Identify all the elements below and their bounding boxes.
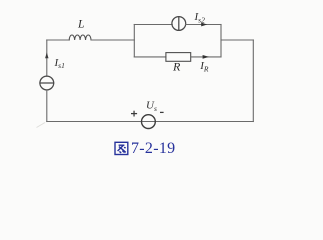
wire box to right vertical [221, 39, 253, 41]
svg-text:Is2: Is2 [194, 11, 206, 25]
wire box left edge [133, 25, 135, 57]
inductor L [69, 35, 91, 40]
svg-text:L: L [77, 18, 84, 30]
wire top-left horizontal [47, 39, 69, 41]
current source Is2 [172, 17, 186, 31]
svg-text:Is1: Is1 [54, 57, 65, 70]
resistor R [166, 53, 191, 62]
svg-text:Us: Us [146, 100, 157, 114]
polarity minus [160, 111, 164, 113]
wire left vertical upper [46, 40, 48, 76]
wire left vertical lower [46, 90, 48, 122]
wire bottom branch left [134, 56, 166, 58]
caption: 图 glyph drawn as strokes [115, 142, 128, 154]
wire top branch left [134, 24, 172, 26]
wire top branch right [186, 24, 222, 26]
arrow IR (right) [203, 55, 209, 59]
wire bottom [47, 121, 254, 123]
arrow Is2 (right) [201, 23, 207, 27]
wire right vertical [252, 40, 254, 122]
voltage source Us [142, 115, 156, 129]
wire bottom branch right [191, 56, 221, 58]
arrow Is1 (up) [45, 52, 48, 58]
scan artifact near bottom-left corner [37, 123, 46, 128]
svg-text:IR: IR [199, 60, 209, 74]
current source Is1 [40, 76, 54, 90]
svg-text:7-2-19: 7-2-19 [131, 140, 175, 157]
wire box right edge [220, 25, 222, 57]
polarity plus [131, 111, 137, 117]
wire inductor to parallel box [91, 39, 134, 41]
svg-text:R: R [172, 59, 181, 73]
